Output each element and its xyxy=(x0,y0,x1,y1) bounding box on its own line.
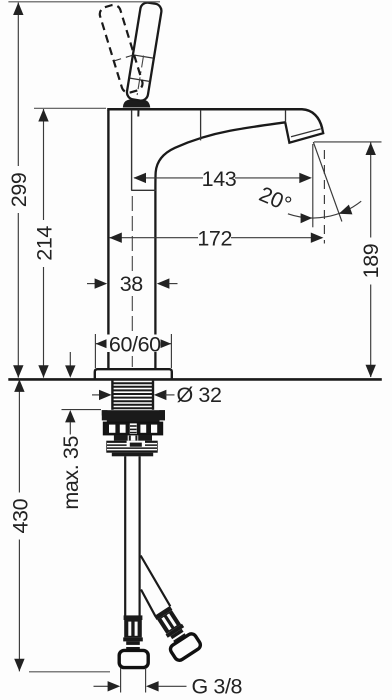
lower threaded block xyxy=(106,441,157,453)
dimension line 430 xyxy=(8,379,32,671)
washer left tab xyxy=(102,410,108,420)
vertical hose knurled collar xyxy=(124,620,142,637)
G 3/8 extension lines xyxy=(120,668,122,693)
dimension 189 top extension line xyxy=(314,141,382,143)
deck surface line xyxy=(8,378,382,381)
dimension line 172 xyxy=(109,227,323,251)
svg-text:214: 214 xyxy=(32,226,56,261)
handle pivot base xyxy=(123,100,150,108)
dimension line 189 xyxy=(359,142,383,377)
vertical hose crimp band xyxy=(124,615,143,620)
spout joint tick 2 xyxy=(285,110,287,123)
dimension line 143 xyxy=(133,167,312,191)
svg-text:430: 430 xyxy=(8,498,32,533)
svg-text:max. 35: max. 35 xyxy=(59,436,83,510)
vertical hose ring xyxy=(123,637,143,641)
dashed lever (handle, alternate position) xyxy=(98,3,144,94)
svg-text:G 3/8: G 3/8 xyxy=(192,675,243,699)
arc arrowhead at stream line xyxy=(337,205,352,219)
body joint line xyxy=(131,189,156,191)
handle centerline tick below pivot xyxy=(137,110,139,117)
dimension max. 35 xyxy=(59,352,101,510)
mounting clamp waist xyxy=(114,435,152,441)
angle arc 20 degrees xyxy=(288,201,361,218)
svg-text:38: 38 xyxy=(120,272,144,296)
spout joint tick 1 xyxy=(200,110,202,140)
svg-text:172: 172 xyxy=(197,227,232,251)
vertical hose end nut xyxy=(119,650,148,667)
svg-text:299: 299 xyxy=(7,173,31,208)
svg-text:60/60: 60/60 xyxy=(109,332,161,356)
dimension Ø 32 xyxy=(92,383,222,407)
vertical datum line (dashed) at spout tip xyxy=(323,150,325,244)
dimension line 60/60 xyxy=(96,332,172,356)
washer right tab xyxy=(159,410,165,420)
spout mouth front and bottom edge xyxy=(285,122,323,142)
vertical hose neck xyxy=(126,641,140,645)
threaded shank xyxy=(112,381,153,410)
spout neck left line xyxy=(131,110,133,190)
solid lever (handle, on position) xyxy=(126,2,163,102)
svg-text:143: 143 xyxy=(202,167,237,191)
spout underside curve xyxy=(155,122,285,368)
dimension line 38 xyxy=(87,272,178,296)
bottom bar of mounting set xyxy=(112,453,153,457)
svg-text:189: 189 xyxy=(359,244,383,279)
vertical supply hose xyxy=(124,456,126,615)
dimension line 214 xyxy=(32,109,56,378)
escutcheon base plate xyxy=(95,369,172,379)
spout aerator inner line xyxy=(291,129,321,137)
dimension 60/60 extension lines xyxy=(94,334,96,368)
angled supply hose xyxy=(141,556,171,607)
angled hose end fitting xyxy=(150,603,202,662)
dimension line 299 xyxy=(7,2,31,377)
dimension 299 top extension line xyxy=(8,1,160,3)
dimension line G 3/8 xyxy=(94,675,243,699)
faucet body top line and spout top xyxy=(107,109,322,129)
body centerline (dashed) xyxy=(131,196,133,367)
arc arrowhead at vertical line xyxy=(301,213,313,223)
mounting nut ribbed body xyxy=(104,422,163,434)
mounting nut top band xyxy=(107,416,160,423)
svg-text:Ø 32: Ø 32 xyxy=(177,383,222,407)
dimension 214 top extension line xyxy=(34,107,106,109)
washer under deck xyxy=(102,410,165,415)
aerator vertical extension line (solid) xyxy=(312,144,314,227)
faucet body left edge xyxy=(107,110,109,369)
water stream line 20 degrees xyxy=(313,142,342,222)
dimension 430 bottom extension line xyxy=(29,671,110,673)
